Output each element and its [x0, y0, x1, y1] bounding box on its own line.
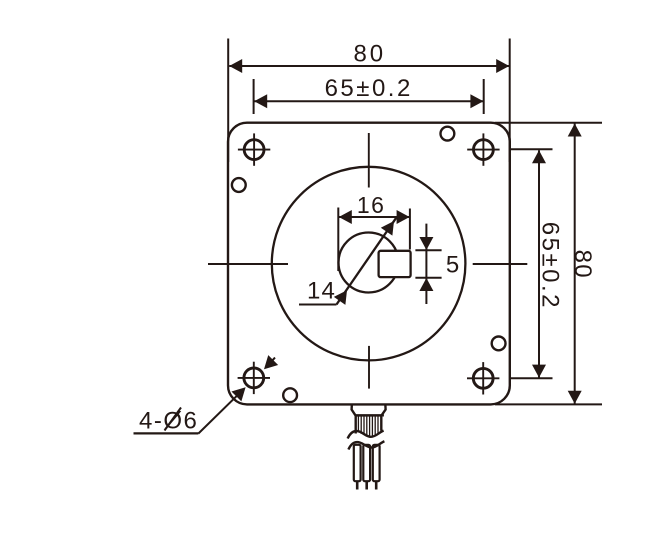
- extension line right for top 65 dim: [483, 79, 485, 114]
- dimension 5: bottom arrow (pointing up): [419, 278, 433, 291]
- 4-Ø6 upper leader stub: [266, 358, 275, 368]
- Ø14 upper arrow: [381, 217, 400, 236]
- vertical centerline top segment: [368, 133, 370, 188]
- svg-text:5: 5: [446, 252, 459, 279]
- dimension 16: left arrow: [339, 210, 352, 224]
- wire 3 tip: [375, 481, 378, 489]
- dimension 16: line: [339, 216, 410, 218]
- leader for Ø14: diagonal diameter line: [337, 218, 397, 305]
- strain relief left edge: [355, 415, 357, 433]
- shaft circle: [339, 233, 399, 293]
- wire 2: [363, 445, 370, 481]
- dimension 5: vertical line: [425, 224, 427, 304]
- shaft key rectangle: [379, 251, 411, 277]
- svg-text:80: 80: [569, 250, 596, 279]
- svg-text:80: 80: [353, 41, 386, 68]
- extension line right for 16 dim: [409, 209, 411, 250]
- dimension 80 top: right arrow: [496, 59, 509, 73]
- dimension 65±0.2 top: right arrow: [470, 94, 483, 108]
- svg-text:16: 16: [357, 192, 386, 218]
- cable break wavy line 2: [348, 441, 384, 449]
- mounting hole bottom-right: [467, 362, 499, 394]
- horizontal centerline right segment: [473, 263, 528, 265]
- strain relief hatch lines: [358, 416, 378, 436]
- dimension 65±0.2 top: left arrow: [254, 94, 267, 108]
- dimension 65±0.2 right: top arrow: [532, 150, 546, 163]
- mounting hole bottom-left: [238, 362, 270, 394]
- extension line bottom for 5 dim: [415, 277, 441, 279]
- dimension 80 right: line: [574, 124, 576, 404]
- extension line top for right 65 dim: [511, 148, 553, 150]
- pilot circle (register boss): [272, 167, 466, 361]
- small hole near bottom-left: [283, 388, 297, 402]
- bottom edge extension line (to right 80 dim): [495, 403, 602, 405]
- extension line left for 16 dim: [337, 208, 339, 272]
- mounting hole top-right: [467, 133, 499, 165]
- motor flange outline (80x80 square, rounded corners): [228, 123, 510, 405]
- dimension 80 top: line: [229, 65, 509, 67]
- dimension 65±0.2 top: line: [254, 100, 483, 102]
- dimension 5: top arrow (pointing down): [419, 237, 433, 250]
- cable break wavy line 1: [348, 431, 384, 439]
- left extension line for top 80 dim: [227, 39, 229, 163]
- extension line bottom for right 65 dim: [511, 377, 553, 379]
- wire 3: [373, 445, 380, 481]
- horizontal centerline left segment: [208, 263, 288, 265]
- dimension 65±0.2 right: bottom arrow: [532, 365, 546, 378]
- leader for 4-Ø6: underline: [134, 432, 199, 434]
- dimension 16: right arrow: [397, 210, 410, 224]
- strain relief right edge: [380, 415, 382, 430]
- wire 1 tip: [356, 481, 359, 489]
- small hole near bottom-right: [492, 337, 506, 351]
- extension line left for top 65 dim: [253, 79, 255, 114]
- 4-Ø6 arrow at hole upper-right: [259, 355, 278, 374]
- wire 1: [354, 445, 361, 481]
- svg-text:65±0.2: 65±0.2: [325, 75, 413, 102]
- dimension 80 right: top arrow: [568, 124, 582, 137]
- svg-text:65±0.2: 65±0.2: [537, 222, 564, 310]
- svg-text:14: 14: [307, 278, 336, 305]
- Ø14 lower arrow: [334, 286, 353, 305]
- right extension line for top 80 dim: [509, 39, 511, 163]
- svg-text:4-Ø6: 4-Ø6: [139, 408, 198, 435]
- leader for 4-Ø6: diagonal: [198, 390, 243, 434]
- dimension 80 right: bottom arrow: [568, 391, 582, 404]
- small hole near top-right: [441, 127, 455, 141]
- vertical centerline bottom segment: [368, 346, 370, 389]
- small hole near top-left: [232, 178, 246, 192]
- dimension 80 top: left arrow: [229, 59, 242, 73]
- 4-Ø6 slash overlay on Ø: [165, 408, 182, 431]
- leader for Ø14: underline: [299, 304, 337, 306]
- cable boot trapezoid: [352, 406, 386, 416]
- extension line top for 5 dim: [415, 249, 441, 251]
- mounting hole top-left: [238, 133, 270, 165]
- dimension 65±0.2 right: line: [538, 150, 540, 377]
- top edge extension line (to right 80 dim): [495, 122, 602, 124]
- cable boot bottom line: [355, 414, 384, 416]
- wire 2 tip: [365, 481, 368, 489]
- 4-Ø6 arrow at hole lower-left: [231, 382, 250, 401]
